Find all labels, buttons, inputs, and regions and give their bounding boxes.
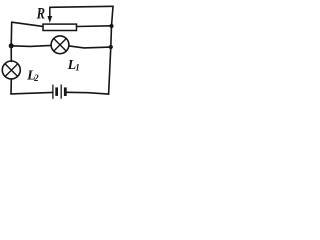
battery (two cells): [53, 85, 67, 98]
node junction right top: [109, 24, 113, 28]
wire left edge upper: [10, 22, 13, 61]
wire top-left corner to resistor: [12, 22, 43, 26]
node junction left: [9, 43, 14, 48]
lamp L2: [2, 61, 20, 79]
wire top (slider to right corner): [50, 6, 113, 7]
wire right edge: [109, 6, 113, 94]
node junction right middle: [109, 45, 113, 49]
wire left edge lower: [10, 79, 12, 94]
svg-text:R: R: [36, 6, 45, 23]
wire bottom left (to battery): [11, 92, 53, 94]
resistor R (box): [43, 24, 77, 30]
rheostat slider arrow: [47, 7, 52, 23]
wire resistor to right edge: [77, 25, 112, 28]
wire middle left (to lamp L1): [11, 45, 51, 46]
wire bottom right (battery to right corner): [67, 92, 109, 94]
svg-text:2: 2: [33, 73, 39, 83]
lamp L1: [51, 36, 69, 54]
svg-text:1: 1: [75, 62, 80, 72]
wire middle right (lamp L1 to right edge): [69, 46, 111, 48]
